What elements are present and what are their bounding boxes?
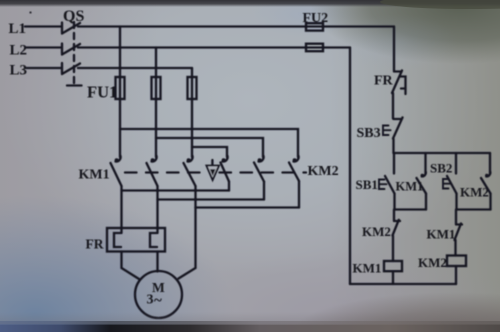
fuse FU1 element 2 <box>152 77 161 157</box>
stop button SB3 NC contact <box>383 118 403 154</box>
ink speck <box>29 11 31 13</box>
contactor KM2 NC interlock contact <box>393 210 401 262</box>
svg-text:SB2: SB2 <box>430 161 452 176</box>
start button SB2 label <box>430 161 452 176</box>
contactor KM2 NC interlock label <box>362 224 391 239</box>
wire phase U drop <box>119 27 121 78</box>
svg-text:KM2: KM2 <box>460 185 489 200</box>
svg-text:SB3: SB3 <box>357 126 381 141</box>
contactor KM1 main contact 2 <box>147 156 158 233</box>
fuse FU1 label <box>87 83 117 102</box>
wire L3 bus to right <box>78 67 192 69</box>
motor M <box>135 271 182 318</box>
svg-text:FR: FR <box>86 237 104 252</box>
wire V into motor <box>156 252 158 272</box>
control bottom rail <box>350 283 456 285</box>
thermal relay FR heater element 2 <box>150 233 157 247</box>
contactor KM1 NC interlock label <box>427 227 456 242</box>
switch QS linkage dashed bar <box>67 22 82 86</box>
contactor KM1 aux NO contact <box>417 153 427 210</box>
svg-text:KM1: KM1 <box>427 227 456 242</box>
thermal relay FR NC contact <box>392 71 406 119</box>
contactor KM2 main contact 1 <box>221 156 230 191</box>
coil KM2 <box>447 256 466 285</box>
svg-text:3: 3 <box>147 293 154 308</box>
wire crossover L3 to KM2 pole 1 <box>192 147 227 157</box>
wire motor V merge <box>158 198 265 200</box>
motor M label <box>147 280 166 309</box>
switch QS label <box>63 8 84 25</box>
svg-text:KM1: KM1 <box>79 168 110 183</box>
contactor KM1 main contact 1 <box>111 156 122 233</box>
wire L1 feeder down to FR contact <box>393 27 395 72</box>
fuse FU1 element 3 <box>188 77 197 157</box>
wire SB2/KM2 parallel join <box>457 208 491 210</box>
wire phase W drop <box>191 68 193 77</box>
svg-text:L2: L2 <box>10 43 28 59</box>
svg-text:FR: FR <box>374 74 394 89</box>
wire L2 bus to right <box>78 46 350 48</box>
wire phase V drop <box>155 48 157 78</box>
wire U into motor <box>122 252 140 280</box>
coil KM1 <box>384 261 402 284</box>
contactor KM2 main contact 3 <box>289 156 299 208</box>
wire W into motor <box>179 208 196 279</box>
fuse FU2 element 1 <box>306 23 323 30</box>
wire motor W merge <box>196 206 300 208</box>
stop button SB3 label <box>357 126 381 141</box>
photo dark top band <box>0 0 500 7</box>
svg-text:KM2: KM2 <box>418 255 447 270</box>
control rail left from FU2 <box>349 48 351 285</box>
start button SB1 NO contact <box>379 153 395 210</box>
node L3 label <box>10 63 28 79</box>
svg-text:KM2: KM2 <box>308 164 339 179</box>
wire motor U merge <box>122 189 230 191</box>
thermal relay FR label <box>86 237 104 252</box>
switch QS pole 3 <box>62 63 80 74</box>
contactor KM2 label <box>308 164 339 179</box>
wire L2 lead-in <box>26 46 61 48</box>
svg-text:~: ~ <box>154 293 162 309</box>
switch QS pole 2 <box>62 44 80 55</box>
start button SB1 label <box>356 177 378 192</box>
fuse FU1 element 1 <box>116 77 125 157</box>
svg-text:KM1: KM1 <box>353 261 382 276</box>
control top rail <box>394 152 491 154</box>
wire L3 lead-in <box>26 67 61 69</box>
start button SB2 NO contact <box>443 153 457 210</box>
wire SB1/KM1 parallel join <box>395 208 427 210</box>
svg-text:KM2: KM2 <box>362 224 391 239</box>
photo dark bottom band <box>0 312 500 324</box>
coil KM1 label <box>353 261 382 276</box>
thermal relay FR heater element 1 <box>114 233 121 247</box>
contactor KM1 label <box>79 168 110 183</box>
svg-text:SB1: SB1 <box>356 177 378 192</box>
node L1 label <box>9 21 27 37</box>
svg-text:FU1: FU1 <box>87 83 117 102</box>
contactor KM2 aux NO contact label <box>460 185 489 200</box>
wire crossover L1 to KM2 pole 3 <box>120 129 298 157</box>
contactor KM1 NC interlock contact <box>455 210 463 256</box>
coil KM2 label <box>418 255 447 270</box>
contactor KM2 aux NO contact <box>481 153 491 210</box>
thermal relay FR heater box <box>107 228 165 252</box>
wire L1 bus to right <box>78 25 394 27</box>
contactor KM2 main contact 2 <box>254 156 264 200</box>
svg-text:L3: L3 <box>10 63 28 79</box>
contactor KM1 interlock dashed line <box>125 171 204 173</box>
wire crossover L2 to KM2 pole 2 <box>156 138 263 157</box>
switch QS pole 1 <box>62 23 80 34</box>
contactor KM1 aux NO contact label <box>396 180 424 194</box>
thermal relay FR contact label <box>374 74 394 89</box>
wire L1 lead-in <box>25 25 61 27</box>
mechanical interlock symbol triangle <box>206 160 219 180</box>
svg-text:L1: L1 <box>9 21 27 37</box>
fuse FU2 label <box>303 11 329 26</box>
fuse FU2 element 2 <box>306 44 323 52</box>
contactor KM1 main contact 3 <box>184 156 196 208</box>
node L2 label <box>10 43 28 59</box>
